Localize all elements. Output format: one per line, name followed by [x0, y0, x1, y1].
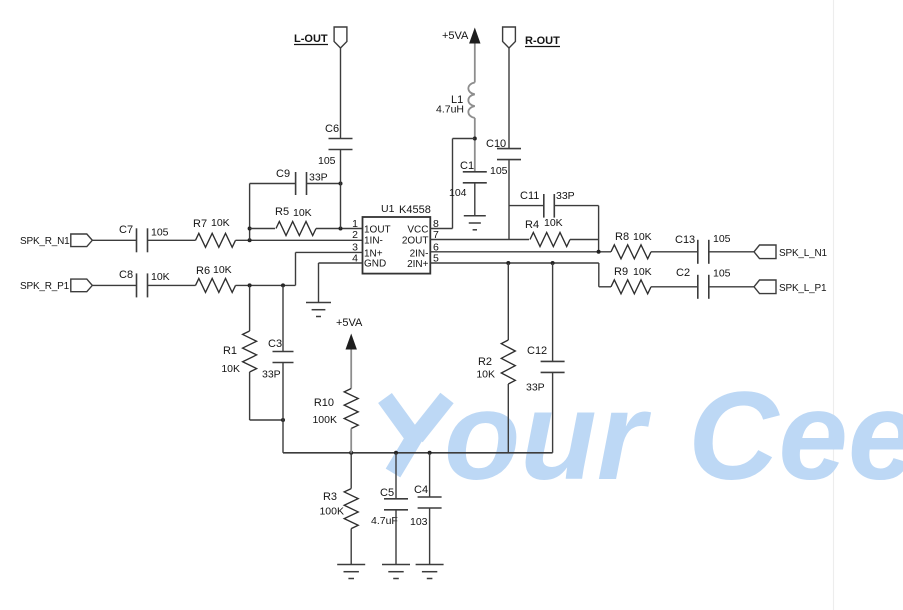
node junction	[473, 137, 477, 141]
svg-text:10K: 10K	[151, 271, 170, 283]
node junction	[506, 261, 510, 265]
ground	[382, 565, 410, 579]
wire	[249, 372, 251, 420]
wire	[249, 285, 251, 331]
svg-text:4.7uF: 4.7uF	[371, 515, 398, 527]
svg-text:+5VA: +5VA	[336, 317, 363, 329]
svg-text:GND: GND	[364, 259, 386, 270]
wire	[507, 263, 509, 340]
svg-text:R3: R3	[323, 491, 337, 503]
ground	[306, 303, 331, 317]
pin 3	[352, 242, 383, 260]
capacitor C8	[119, 269, 170, 297]
svg-text:C6: C6	[325, 123, 339, 135]
node junction	[281, 283, 285, 287]
svg-text:K4558: K4558	[399, 204, 431, 216]
node junction	[339, 227, 343, 231]
capacitor C1	[449, 160, 487, 199]
wire	[709, 251, 754, 253]
wire	[709, 286, 754, 288]
svg-text:33P: 33P	[262, 369, 281, 381]
svg-text:10K: 10K	[211, 217, 230, 229]
port R-OUT	[503, 27, 561, 48]
capacitor C3	[262, 338, 294, 381]
node junction	[551, 261, 555, 265]
svg-text:U1: U1	[381, 203, 395, 215]
svg-text:103: 103	[410, 516, 428, 528]
svg-text:C3: C3	[268, 338, 282, 350]
resistor R3	[319, 489, 358, 529]
pin 4	[352, 253, 386, 270]
wire	[250, 228, 275, 230]
pin 8	[407, 218, 439, 236]
op-amp U1	[363, 203, 431, 274]
svg-text:C11: C11	[520, 190, 539, 202]
capacitor C9	[276, 168, 328, 195]
wire	[507, 384, 509, 453]
wire	[249, 184, 251, 241]
svg-text:10K: 10K	[544, 217, 563, 229]
wire	[599, 286, 611, 288]
capacitor C4	[410, 484, 442, 528]
wire	[148, 284, 196, 286]
wire	[250, 183, 296, 185]
wire	[148, 239, 196, 241]
svg-text:C5: C5	[380, 487, 394, 499]
wire	[429, 508, 431, 565]
svg-text:C4: C4	[414, 484, 428, 496]
wire	[651, 251, 698, 253]
wire	[395, 453, 397, 499]
wire	[350, 429, 352, 453]
wire	[430, 239, 529, 241]
svg-text:C7: C7	[119, 224, 133, 236]
node junction	[339, 182, 343, 186]
node junction	[428, 451, 432, 455]
svg-text:SPK_L_N1: SPK_L_N1	[779, 248, 828, 259]
wire	[430, 228, 452, 230]
power +5VA	[442, 28, 481, 44]
resistor R1	[221, 331, 256, 375]
svg-text:C13: C13	[675, 234, 695, 246]
ground	[464, 216, 486, 230]
wire	[474, 183, 476, 216]
wire	[307, 183, 341, 185]
svg-text:VCC: VCC	[407, 225, 428, 236]
wire	[282, 363, 284, 453]
inductor L1	[436, 83, 475, 118]
capacitor C13	[675, 233, 731, 264]
capacitor C5	[371, 487, 408, 527]
svg-text:R5: R5	[275, 206, 289, 218]
svg-text:R9: R9	[614, 266, 628, 278]
node junction	[281, 418, 285, 422]
svg-text:C1: C1	[460, 160, 474, 172]
port SPK_L_P1	[754, 280, 827, 294]
svg-text:R2: R2	[478, 356, 492, 368]
svg-text:33P: 33P	[556, 190, 575, 202]
wire	[395, 510, 397, 565]
port SPK_R_N1	[20, 234, 92, 247]
svg-text:10K: 10K	[293, 207, 312, 219]
wire	[509, 205, 544, 207]
wire	[429, 453, 431, 497]
wire	[651, 286, 698, 288]
wire	[350, 529, 352, 565]
wire	[552, 263, 554, 361]
svg-text:2IN-: 2IN-	[410, 249, 429, 260]
pin 7	[402, 229, 439, 247]
capacitor C10	[486, 138, 521, 177]
svg-text:2: 2	[352, 229, 358, 241]
resistor R9	[611, 266, 652, 294]
wire	[350, 453, 352, 489]
node junction	[248, 238, 252, 242]
svg-text:100K: 100K	[319, 506, 344, 518]
svg-text:SPK_R_N1: SPK_R_N1	[20, 236, 70, 247]
wire	[452, 139, 454, 229]
pin 2	[352, 229, 383, 247]
svg-text:R8: R8	[615, 231, 629, 243]
svg-text:C12: C12	[527, 345, 547, 357]
svg-text:1IN-: 1IN-	[364, 236, 383, 247]
resistor R5	[275, 206, 316, 236]
wire	[250, 419, 283, 421]
wire	[508, 160, 510, 239]
wire	[295, 252, 297, 285]
resistor R2	[476, 340, 515, 384]
wire	[598, 206, 600, 252]
svg-text:100K: 100K	[312, 414, 337, 426]
svg-text:10K: 10K	[213, 264, 232, 276]
svg-text:10K: 10K	[476, 369, 495, 381]
wire	[340, 48, 342, 139]
svg-text:105: 105	[151, 227, 169, 239]
node junction	[248, 283, 252, 287]
svg-text:10K: 10K	[633, 266, 652, 278]
svg-text:SPK_R_P1: SPK_R_P1	[20, 281, 70, 292]
svg-text:C8: C8	[119, 269, 133, 281]
svg-text:SPK_L_P1: SPK_L_P1	[779, 283, 827, 294]
wire	[282, 285, 284, 351]
wire	[598, 263, 600, 287]
wire	[474, 44, 476, 83]
capacitor C6	[318, 123, 353, 167]
svg-text:R6: R6	[196, 265, 210, 277]
ground	[337, 565, 365, 579]
wire	[318, 263, 320, 303]
capacitor C2	[676, 267, 731, 299]
power +5VA	[336, 317, 363, 350]
node junction	[394, 451, 398, 455]
svg-text:C9: C9	[276, 168, 290, 180]
svg-text:2OUT: 2OUT	[402, 236, 429, 247]
svg-text:R1: R1	[223, 345, 237, 357]
node junction	[597, 250, 601, 254]
pin 1	[352, 218, 391, 236]
svg-text:10K: 10K	[221, 363, 240, 375]
wire	[340, 150, 342, 229]
node junction	[248, 227, 252, 231]
svg-text:104: 104	[449, 187, 467, 199]
node junction	[349, 451, 353, 455]
svg-text:C2: C2	[676, 267, 690, 279]
svg-text:L-OUT: L-OUT	[294, 33, 328, 45]
capacitor C12	[526, 345, 565, 394]
svg-text:10K: 10K	[633, 231, 652, 243]
wire	[236, 284, 296, 286]
resistor R8	[611, 231, 652, 259]
wire	[236, 239, 363, 241]
wire	[554, 205, 598, 207]
wire	[350, 350, 352, 389]
svg-text:1OUT: 1OUT	[364, 225, 391, 236]
svg-text:105: 105	[318, 155, 336, 167]
resistor R4	[525, 217, 570, 247]
capacitor C7	[119, 224, 169, 252]
svg-text:C10: C10	[486, 138, 506, 150]
svg-text:R7: R7	[193, 218, 207, 230]
capacitor C11	[520, 190, 575, 218]
wire	[474, 118, 476, 172]
wire	[552, 372, 554, 452]
ground	[416, 565, 444, 579]
svg-text:R4: R4	[525, 219, 539, 231]
svg-text:R10: R10	[314, 397, 334, 409]
resistor R6	[196, 264, 236, 292]
svg-text:+5VA: +5VA	[442, 30, 469, 42]
wire	[283, 452, 553, 454]
wire	[430, 251, 611, 253]
port SPK_L_N1	[754, 245, 828, 259]
wire	[316, 228, 363, 230]
port L-OUT	[294, 27, 347, 48]
wire	[570, 239, 599, 241]
wire	[92, 239, 136, 241]
wire	[508, 48, 510, 149]
svg-text:4.7uH: 4.7uH	[436, 104, 464, 116]
svg-text:2IN+: 2IN+	[407, 259, 429, 270]
port SPK_R_P1	[20, 279, 92, 292]
pin 6	[410, 242, 439, 260]
svg-text:33P: 33P	[309, 172, 328, 184]
resistor R7	[193, 217, 236, 247]
svg-text:33P: 33P	[526, 382, 545, 394]
wire	[430, 262, 599, 264]
pin 5	[407, 253, 439, 271]
wire	[92, 284, 136, 286]
svg-text:R-OUT: R-OUT	[525, 35, 560, 47]
svg-text:our Cee: our Cee	[444, 367, 903, 506]
wire	[453, 138, 475, 140]
svg-text:105: 105	[713, 268, 731, 280]
wire	[296, 251, 363, 253]
resistor R10	[312, 389, 358, 429]
svg-text:105: 105	[490, 165, 508, 177]
wire	[319, 262, 363, 264]
svg-text:105: 105	[713, 233, 731, 245]
